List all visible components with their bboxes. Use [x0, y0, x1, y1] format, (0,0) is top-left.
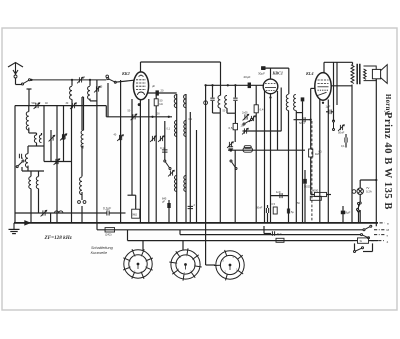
wire — [267, 205, 269, 208]
wire — [96, 223, 98, 230]
wire rail — [302, 113, 304, 223]
junction — [269, 96, 271, 98]
capacitor 1uF — [326, 111, 328, 113]
capacitor — [188, 206, 193, 208]
wire rail — [234, 113, 236, 123]
wire — [81, 192, 83, 200]
oscillator rail with jack — [205, 85, 207, 240]
junction — [211, 84, 213, 86]
wire — [327, 100, 329, 223]
svg-text:30μF: 30μF — [258, 72, 265, 76]
capacitor coupling 20uF — [248, 83, 251, 89]
trimmer capacitor — [70, 102, 77, 109]
wire — [234, 150, 236, 223]
svg-text:0,1: 0,1 — [341, 144, 345, 148]
wire rail — [196, 130, 198, 223]
coil L5 — [80, 177, 82, 195]
antenna terminal — [14, 75, 17, 78]
coil osc B — [225, 96, 227, 109]
wire — [155, 106, 157, 223]
wire — [319, 100, 321, 223]
svg-text:Prinz 40 B W 135 B: Prinz 40 B W 135 B — [382, 112, 393, 210]
wire — [179, 230, 181, 235]
svg-text:Schaltleitung: Schaltleitung — [91, 246, 114, 250]
wire cathode KBC1 — [270, 94, 272, 223]
wire — [168, 200, 170, 203]
svg-text:μF: μF — [152, 84, 155, 88]
capacitor 845 — [167, 203, 170, 208]
switch mains b — [361, 234, 370, 239]
wire rail B+ — [333, 62, 335, 110]
wire — [28, 145, 44, 147]
wire — [36, 143, 38, 146]
pilot lamp — [357, 188, 363, 194]
wire rail — [96, 80, 98, 223]
contact — [83, 201, 86, 204]
wire — [27, 146, 29, 154]
antenna — [8, 63, 23, 75]
wire — [234, 130, 236, 142]
svg-text:2x05: 2x05 — [242, 111, 248, 115]
antenna switch — [22, 79, 31, 85]
trimmer capacitor — [49, 135, 56, 142]
wire AVC line — [106, 116, 172, 118]
resistor 1M — [309, 149, 313, 157]
tone switch — [333, 120, 335, 131]
coil input 2 — [89, 80, 91, 86]
svg-text:1M: 1M — [241, 125, 244, 128]
junction — [71, 79, 73, 81]
wire — [359, 194, 361, 202]
resistor screen — [154, 99, 158, 106]
svg-text:5nF: 5nF — [299, 121, 304, 125]
trimmer capacitor — [60, 134, 67, 141]
wire line 3 — [180, 234, 362, 236]
coil IF1b — [184, 95, 186, 108]
wire — [29, 132, 37, 134]
wire — [304, 170, 306, 179]
band switch — [16, 160, 24, 168]
wire — [352, 62, 354, 65]
capacitor 50/25 — [303, 179, 307, 184]
wave switch — [164, 160, 171, 170]
wire — [353, 240, 358, 242]
svg-text:μF: μF — [162, 200, 165, 204]
svg-text:kΩ: kΩ — [319, 151, 322, 154]
capacitor 1nF — [271, 195, 289, 197]
wire antenna line — [31, 79, 106, 81]
AF coupling 5nF — [294, 119, 311, 121]
resistor 242 — [105, 228, 115, 232]
wire — [270, 68, 272, 79]
wire — [345, 134, 347, 138]
capacitor osc 2 — [233, 98, 237, 100]
trimmer capacitor — [150, 135, 157, 142]
svg-text:0,4: 0,4 — [260, 108, 264, 112]
wire top line — [141, 61, 221, 63]
coil IF1a — [174, 95, 176, 108]
svg-text:Kurzwelle: Kurzwelle — [91, 251, 107, 255]
ground — [9, 229, 20, 233]
wire rail — [189, 112, 191, 223]
wire to ground — [13, 223, 15, 229]
wire — [288, 68, 290, 94]
coil L1 — [26, 112, 29, 130]
wire — [50, 130, 52, 162]
wire — [311, 87, 316, 89]
wire — [234, 101, 236, 113]
wire — [333, 110, 335, 121]
coil L2 tap pair — [34, 135, 36, 143]
wire — [213, 112, 221, 114]
wire — [81, 146, 83, 176]
wire — [43, 106, 45, 162]
bus arrow — [25, 221, 30, 225]
wire rail — [277, 91, 279, 150]
wire — [131, 99, 133, 195]
wire — [255, 85, 257, 105]
coil L7 — [38, 171, 40, 176]
wire — [345, 143, 347, 148]
trimmer capacitor — [54, 158, 61, 165]
svg-text:KL4: KL4 — [305, 71, 313, 76]
wire diode lead — [280, 88, 282, 132]
svg-text:1nF: 1nF — [276, 190, 281, 194]
wire — [90, 100, 97, 102]
switch mains a — [363, 225, 372, 231]
junction — [229, 149, 232, 152]
wire — [82, 96, 84, 98]
junction — [168, 116, 170, 118]
wire cathode — [139, 100, 141, 223]
trimmer capacitor — [168, 170, 175, 177]
trimmer capacitor — [338, 124, 345, 131]
svg-text:8μF: 8μF — [346, 211, 351, 215]
wire — [212, 85, 214, 97]
junction — [322, 102, 324, 104]
tube socket KL4 bottom view — [214, 250, 244, 281]
svg-text:KBC1: KBC1 — [272, 71, 283, 76]
wire — [82, 145, 84, 147]
coil IF3b — [184, 176, 186, 192]
wire — [261, 67, 289, 69]
svg-text:4000: 4000 — [312, 189, 319, 193]
detector output cap — [301, 97, 305, 101]
resistor 0,4M — [254, 105, 258, 113]
tube KL4 — [315, 73, 331, 101]
capacitor 0,1uF — [162, 150, 167, 152]
svg-text:0,2A: 0,2A — [366, 190, 372, 194]
speaker — [364, 65, 388, 84]
wire rail — [71, 106, 73, 223]
wire — [135, 195, 137, 209]
svg-text:Si: Si — [360, 239, 363, 243]
trimmer capacitor — [34, 102, 41, 109]
wire diode line — [243, 130, 282, 132]
capacitor 50nF — [266, 208, 268, 213]
wire rail — [219, 108, 221, 223]
wire to socket 3 — [205, 241, 207, 265]
wire rail — [336, 62, 338, 105]
trimmer capacitor — [249, 115, 256, 122]
wire — [27, 166, 29, 171]
wire — [44, 161, 72, 163]
wire — [155, 93, 157, 99]
capacitor osc — [210, 98, 214, 100]
capacitor tone — [345, 138, 347, 143]
trimmer capacitor — [41, 210, 48, 217]
wire rail — [185, 94, 187, 223]
wire screen KL4 — [331, 85, 352, 87]
wire rail — [81, 97, 83, 130]
wire — [311, 194, 315, 196]
wire left rail — [14, 106, 16, 223]
wire — [310, 179, 312, 195]
trimmer capacitor — [242, 128, 249, 135]
wire — [264, 233, 271, 235]
rf choke — [243, 146, 253, 153]
wire rail — [120, 80, 122, 223]
svg-text:0,5: 0,5 — [272, 203, 276, 206]
wire — [263, 226, 265, 234]
tube KBC1 — [263, 79, 278, 94]
capacitor det 2 — [287, 209, 289, 214]
capacitor 8uF — [341, 211, 345, 215]
resistor heater — [310, 196, 321, 200]
wire screen to IF1 — [147, 92, 177, 94]
switch — [243, 119, 253, 126]
coil L3 — [25, 154, 28, 168]
junction — [375, 179, 377, 181]
switch contact — [106, 75, 109, 78]
wire to socket 1 — [142, 241, 144, 250]
resistor bias — [276, 238, 284, 242]
trimmer capacitor — [61, 133, 68, 140]
junction — [234, 84, 236, 86]
wire — [110, 212, 126, 214]
wire corner — [105, 106, 107, 117]
wire — [107, 83, 109, 117]
capacitor 0,1uF lead — [97, 212, 107, 214]
resistor 0,1 — [233, 123, 237, 129]
wire rail — [176, 94, 178, 223]
trimmer capacitor — [243, 114, 250, 121]
wire rail — [295, 111, 297, 223]
junction — [138, 103, 141, 106]
resistor 0,5 — [273, 207, 277, 214]
wire rail — [288, 111, 290, 223]
resistor 4000 — [315, 192, 327, 196]
coil IF4b — [294, 95, 296, 111]
tube socket KBC1 bottom view — [169, 248, 201, 280]
wire — [28, 106, 30, 112]
wire — [267, 213, 269, 223]
dashed terminal 3 — [374, 234, 385, 236]
wire — [36, 133, 38, 135]
left AVC line — [15, 212, 97, 214]
wire — [360, 179, 376, 181]
coil hum filter — [55, 211, 63, 213]
svg-text:1μF: 1μF — [326, 105, 331, 109]
wire — [342, 214, 344, 223]
svg-text:(242): (242) — [105, 233, 112, 237]
svg-text:kΩ: kΩ — [160, 102, 163, 106]
wire — [226, 108, 228, 113]
junction — [151, 116, 153, 118]
wire rail — [264, 91, 266, 223]
tube KK2 — [133, 72, 148, 100]
resistor 2M — [132, 209, 140, 218]
svg-text:0,1μF: 0,1μF — [103, 207, 111, 211]
wire — [206, 264, 215, 266]
wire rail — [56, 106, 58, 223]
wire — [63, 106, 65, 162]
wire — [127, 230, 129, 241]
fuse box — [358, 238, 369, 243]
bus dashed terminal — [380, 222, 385, 224]
band switch blade — [107, 78, 117, 84]
svg-text:100: 100 — [156, 113, 161, 116]
svg-text:0,1μ: 0,1μ — [160, 146, 166, 150]
wire main ground bus — [14, 222, 378, 224]
trimmer capacitor — [117, 134, 124, 141]
wire — [342, 206, 344, 211]
svg-text:0,1: 0,1 — [189, 118, 193, 121]
coil input — [71, 80, 73, 86]
wire — [16, 84, 22, 86]
wire line 4 heater — [128, 240, 354, 242]
svg-text:8μF: 8μF — [277, 232, 282, 236]
terminal circle — [352, 190, 356, 194]
svg-text:KK2: KK2 — [121, 71, 130, 76]
dashed wire — [311, 121, 313, 223]
wire — [21, 158, 23, 160]
wire — [83, 97, 85, 130]
wire — [50, 213, 52, 223]
junction — [30, 79, 32, 81]
coil IF2a — [174, 121, 176, 137]
wire to socket 2 — [182, 241, 184, 250]
wire — [359, 210, 361, 223]
wire — [304, 184, 306, 223]
wire tap — [27, 88, 32, 90]
wire — [310, 157, 312, 179]
trimmer capacitor — [77, 77, 84, 84]
wire — [81, 206, 83, 223]
wire — [212, 101, 214, 113]
svg-text:0,1: 0,1 — [167, 128, 171, 131]
capacitor 0,1uF — [107, 211, 109, 216]
svg-text:500: 500 — [32, 102, 37, 105]
wire — [28, 128, 30, 133]
mains switch — [358, 203, 360, 213]
wire — [324, 61, 353, 63]
wire anode up — [140, 62, 142, 72]
wire — [28, 89, 30, 106]
junction — [227, 84, 229, 86]
wire rail — [148, 99, 150, 223]
socket pin numbers — [129, 255, 238, 275]
wire — [327, 194, 332, 196]
wire lamp feed — [375, 79, 377, 227]
wire line 2 — [97, 229, 364, 231]
wire to grid — [115, 80, 134, 82]
wire detector line — [228, 149, 305, 151]
trimmer capacitor — [94, 86, 101, 93]
capacitor 5uF — [229, 147, 234, 149]
wire — [369, 240, 379, 242]
switch — [230, 160, 237, 170]
wire anode KL4 — [323, 62, 325, 72]
wire — [168, 208, 170, 223]
svg-text:2MΩ: 2MΩ — [132, 213, 138, 217]
tube socket KK2 bottom view — [123, 249, 153, 279]
svg-text:50nF: 50nF — [338, 131, 345, 135]
trimmer capacitor — [158, 135, 165, 142]
coil IF2b — [184, 121, 186, 137]
capacitor 30uF — [261, 66, 265, 70]
wire grid KL4 — [310, 88, 312, 149]
output transformer — [351, 64, 366, 84]
dashed terminal 4 — [371, 240, 385, 242]
lamp switch — [357, 202, 362, 211]
wire — [41, 133, 43, 135]
capacitor 8uF bias — [272, 231, 274, 236]
wire mixer grid — [206, 84, 264, 86]
coil osc A — [218, 96, 220, 109]
coil IF3a — [174, 176, 176, 192]
coil L4 — [81, 130, 83, 148]
trimmer capacitor — [131, 114, 138, 121]
coil IF4a — [286, 95, 288, 111]
contact — [78, 201, 81, 204]
svg-text:50nF: 50nF — [256, 206, 263, 210]
wire box top — [15, 105, 106, 107]
junction — [89, 79, 91, 81]
dashed terminal 2 — [374, 229, 385, 231]
svg-text:ZF=128 kHz: ZF=128 kHz — [44, 235, 72, 241]
wire rail — [255, 113, 257, 223]
wire — [227, 112, 235, 114]
wire — [234, 85, 236, 97]
wire — [351, 85, 353, 223]
coupling capacitor — [19, 154, 21, 159]
wire rail — [164, 121, 166, 160]
wire — [220, 62, 222, 96]
wire — [21, 167, 23, 171]
wire — [15, 78, 17, 85]
svg-text:20μF: 20μF — [244, 75, 251, 79]
mains change-over switch — [354, 243, 356, 251]
trimmer capacitor — [227, 141, 234, 148]
capacitor 20uF cathode — [156, 90, 159, 95]
wire — [128, 194, 136, 196]
svg-text:0,5: 0,5 — [229, 126, 233, 130]
wire — [358, 211, 360, 223]
wire — [89, 99, 91, 101]
wire — [22, 170, 44, 172]
wire — [359, 180, 361, 188]
coil L6 — [30, 171, 32, 176]
